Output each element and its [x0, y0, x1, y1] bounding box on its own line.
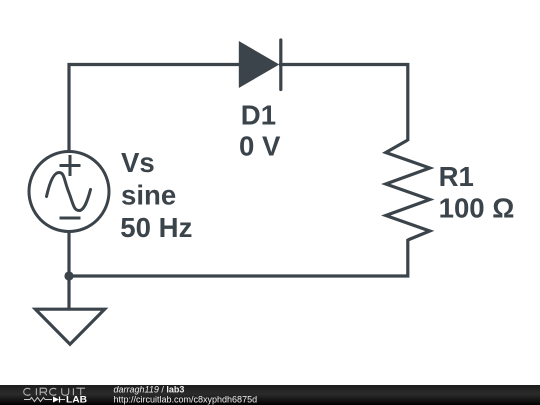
footer bar — [0, 385, 540, 405]
svg-text:R1: R1 — [439, 161, 474, 192]
footer url text — [114, 395, 258, 405]
wire from R1 bottom to bottom node — [69, 239, 408, 276]
diode D1 value label 0 V — [239, 130, 281, 161]
svg-text:http://circuitlab.com/c8xyphdh: http://circuitlab.com/c8xyphdh6875d — [114, 395, 258, 405]
voltage source Vs type label sine — [121, 179, 176, 210]
voltage source Vs symbol — [29, 152, 109, 232]
wire from diode cathode to top of R1 — [279, 65, 408, 142]
svg-text:50 Hz: 50 Hz — [120, 212, 192, 243]
diode D1 reference label — [241, 100, 276, 131]
ground — [35, 309, 104, 344]
diode D1 symbol — [239, 40, 281, 90]
svg-text:sine: sine — [121, 179, 176, 210]
wire from node to ground — [67, 276, 70, 310]
resistor R1 symbol — [386, 140, 430, 240]
junction node dot — [64, 271, 73, 280]
svg-text:Vs: Vs — [121, 147, 155, 178]
wire from Vs + terminal up and across to diode anode — [69, 65, 240, 151]
svg-text:LAB: LAB — [66, 394, 87, 405]
voltage source Vs reference label — [121, 147, 155, 178]
svg-text:D1: D1 — [241, 100, 276, 131]
svg-text:0 V: 0 V — [239, 130, 281, 161]
voltage source Vs value label 50 Hz — [120, 212, 192, 243]
svg-text:100 Ω: 100 Ω — [439, 193, 515, 224]
wire from Vs - terminal down to bottom node — [67, 232, 70, 276]
footer CircuitLab logo — [24, 388, 88, 404]
svg-text:darragh119 / lab3: darragh119 / lab3 — [114, 385, 185, 395]
footer user / title text — [114, 385, 185, 395]
resistor R1 reference label — [439, 161, 474, 192]
resistor R1 value label 100 ohm — [439, 193, 515, 224]
